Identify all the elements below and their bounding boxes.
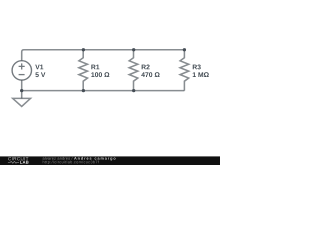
junction bottom of R2 xyxy=(132,89,135,92)
label V1 xyxy=(35,65,43,70)
resistor R2 xyxy=(129,50,138,91)
wire bottom from ground node to R1 bottom xyxy=(22,90,83,92)
label R3 xyxy=(193,65,201,70)
footer credit line 2 url xyxy=(43,161,99,165)
label R2 xyxy=(142,65,150,70)
junction ground node xyxy=(20,89,23,92)
resistor R1 xyxy=(79,50,88,91)
footer credit line 1 author xyxy=(43,157,73,160)
value 100 Ω xyxy=(91,72,109,77)
resistor R3 xyxy=(180,50,189,91)
logo word LAB xyxy=(20,161,28,164)
footer bar xyxy=(0,156,220,165)
logo word CIRCUIT xyxy=(8,157,28,160)
voltage source V1 xyxy=(12,61,31,91)
value 1 MΩ xyxy=(193,72,209,77)
ground xyxy=(13,91,31,107)
junction bottom of R1 xyxy=(82,89,85,92)
value 470 Ω xyxy=(141,72,159,77)
CircuitLab logo xyxy=(8,157,29,164)
label R1 xyxy=(91,65,99,70)
junction node A top of R1 xyxy=(82,48,85,51)
junction node B top of R2 xyxy=(132,48,135,51)
value 5 V xyxy=(35,72,45,77)
footer credit line 1 name xyxy=(74,157,115,161)
wire node A to node B xyxy=(83,49,133,51)
junction node C top of R3 xyxy=(183,48,186,51)
wire R1 bottom to R2 bottom xyxy=(83,90,133,92)
logo resistor squiggle xyxy=(8,161,19,163)
wire top-left from V1 up and right to node A xyxy=(22,50,83,61)
wire R2 bottom to R3 bottom corner xyxy=(134,90,185,92)
wire node B to node C xyxy=(134,49,185,51)
